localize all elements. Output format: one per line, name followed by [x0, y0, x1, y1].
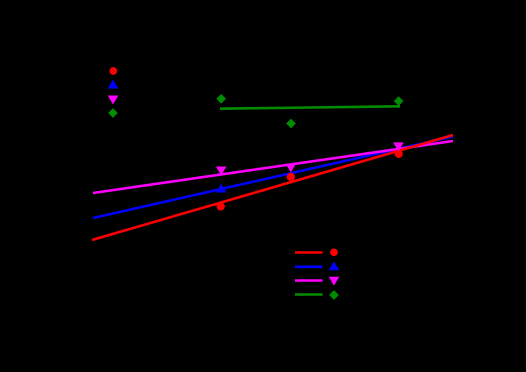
blue data point 1	[217, 185, 226, 193]
top-left legend: magenta down-triangle marker	[109, 96, 118, 104]
red data point 3	[395, 150, 402, 157]
top-left legend: blue triangle marker	[109, 81, 118, 89]
magenta data point 3	[394, 143, 403, 151]
bottom-right legend: magenta down-triangle marker	[330, 277, 339, 285]
bottom-right legend: green line sample	[295, 293, 323, 296]
bottom-right legend: magenta line sample	[295, 279, 323, 282]
blue fit line	[93, 137, 453, 219]
bottom-right legend: blue line sample	[295, 265, 323, 268]
bottom-right legend: red circle marker	[331, 249, 338, 256]
bottom-right legend: green diamond marker	[330, 291, 338, 299]
magenta data point 1	[217, 167, 226, 175]
green data point 3	[394, 97, 402, 105]
top-left legend: red circle marker	[110, 68, 117, 75]
bottom-right legend: red line sample	[295, 251, 323, 254]
red data point 1	[217, 203, 224, 210]
green fit line	[220, 106, 400, 108]
magenta fit line	[93, 141, 453, 193]
red fit line	[92, 135, 453, 240]
bottom-right legend: blue triangle marker	[330, 262, 339, 270]
green data point 2	[287, 119, 295, 127]
green data point 1	[217, 95, 225, 103]
top-left legend: green diamond marker	[109, 109, 117, 117]
magenta data point 2	[286, 164, 295, 172]
red data point 2	[287, 173, 294, 180]
